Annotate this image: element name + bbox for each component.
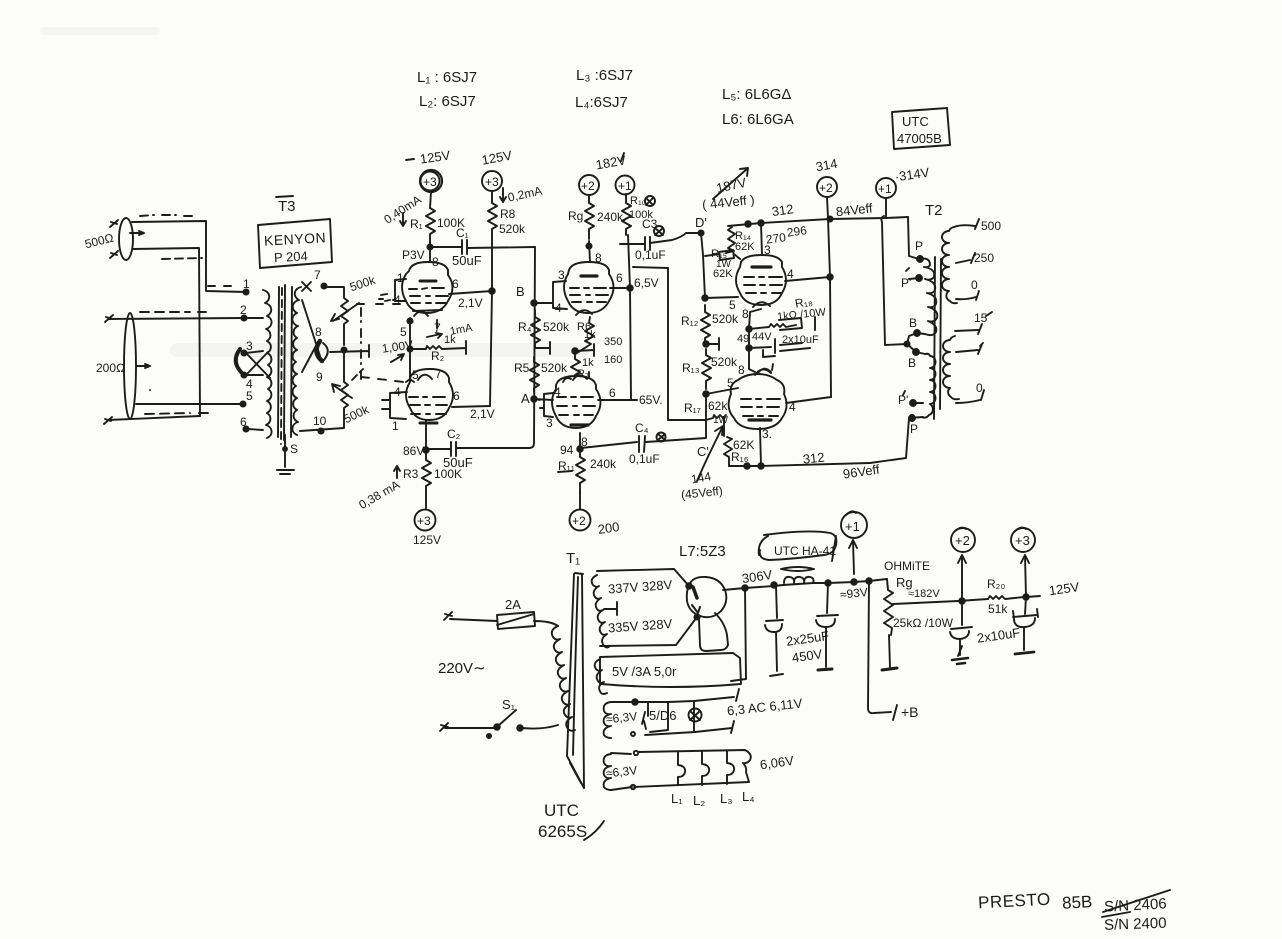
wire from R9 to L3 plate	[589, 241, 590, 262]
wiper wires dashed	[357, 303, 400, 305]
svg-text:7: 7	[314, 268, 321, 282]
svg-text:520k: 520k	[543, 320, 570, 334]
svg-text:+3: +3	[417, 514, 431, 528]
svg-text:P 204: P 204	[274, 248, 308, 265]
svg-text:1k: 1k	[584, 329, 596, 341]
svg-text:1: 1	[392, 419, 399, 433]
terminal +2 bottom	[579, 493, 581, 509]
wire rectifier filament down	[731, 588, 746, 681]
svg-text:+1: +1	[618, 179, 632, 193]
svg-text:3.: 3.	[762, 427, 772, 441]
terminal +1 top right	[876, 178, 896, 198]
svg-text:5/D6: 5/D6	[649, 708, 676, 723]
svg-text:L₄:6SJ7: L₄:6SJ7	[575, 94, 628, 111]
T2 tap 250	[956, 253, 975, 263]
L1 pin6 wire	[449, 291, 492, 294]
choke UTC HA-41	[759, 531, 837, 560]
svg-text:T2: T2	[925, 202, 943, 219]
svg-text:49: 49	[737, 333, 749, 345]
svg-text:5V /3A 5,0r: 5V /3A 5,0r	[612, 664, 677, 679]
svg-text:6: 6	[616, 271, 623, 285]
L3 cathode chain R6	[575, 317, 594, 354]
L3 grid stubs	[547, 281, 567, 309]
svg-text:3: 3	[558, 268, 565, 282]
resistor R11 240k	[576, 452, 585, 493]
resistor R13 520k	[702, 349, 711, 389]
L5 cathode down	[749, 309, 761, 369]
svg-text:R₁₇: R₁₇	[684, 401, 701, 415]
bar stub	[535, 342, 550, 354]
resistor R7 1k	[571, 353, 580, 377]
svg-text:1k: 1k	[444, 334, 456, 346]
6.3V winding 1	[604, 702, 611, 738]
svg-text:B: B	[516, 284, 525, 299]
svg-text:1W: 1W	[713, 415, 729, 426]
resistor R8 520k	[488, 191, 497, 241]
svg-text:R₁₃: R₁₃	[682, 361, 700, 375]
svg-text:R₁₀: R₁₀	[630, 195, 646, 207]
svg-text:L₂: L₂	[693, 793, 705, 808]
svg-text:9: 9	[316, 370, 323, 384]
T3 primary coil	[263, 290, 272, 438]
svg-text:UTC: UTC	[902, 114, 929, 129]
svg-text:86V: 86V	[403, 444, 424, 458]
svg-text:94: 94	[560, 443, 574, 457]
L6 plate stub down	[760, 428, 761, 466]
svg-text:500: 500	[981, 219, 1001, 233]
svg-text:S/N 2400: S/N 2400	[1104, 915, 1167, 934]
HV secondary winding	[597, 569, 697, 646]
T3 terminal 1	[243, 289, 248, 294]
svg-text:62K: 62K	[735, 241, 755, 253]
wire R10 down to L3 area	[628, 235, 631, 400]
svg-text:2A: 2A	[505, 597, 521, 612]
svg-text:15: 15	[974, 311, 988, 325]
svg-text:L6: 6L6GA: L6: 6L6GA	[722, 111, 794, 128]
svg-text:5: 5	[246, 389, 253, 403]
terminal +3 PSU	[1011, 528, 1035, 552]
svg-text:3: 3	[546, 416, 553, 430]
svg-text:6: 6	[453, 389, 460, 403]
inner box L5/D6	[644, 702, 668, 732]
T2 tap mid lower	[956, 343, 983, 354]
svg-text:+2: +2	[581, 179, 595, 193]
svg-text:0,1uF: 0,1uF	[629, 452, 660, 466]
svg-text:4: 4	[787, 267, 794, 281]
rectifier output wire 306V	[723, 585, 783, 590]
svg-text:25kΩ /10W: 25kΩ /10W	[893, 616, 954, 630]
wire pot wiper to bar	[330, 345, 369, 357]
terminal +3 bottom	[415, 510, 436, 531]
svg-text:B: B	[908, 356, 916, 370]
resistor R5 520k	[530, 357, 539, 392]
tube L1	[402, 262, 453, 313]
box UTC 47005B	[892, 108, 950, 149]
svg-text:R₁₆: R₁₆	[731, 450, 749, 464]
svg-text:1: 1	[243, 277, 250, 291]
filter cap 2	[827, 583, 828, 613]
T3 terminal 3	[241, 350, 246, 355]
svg-text:50uF: 50uF	[452, 253, 482, 268]
resistor R10 100k	[622, 194, 631, 235]
svg-text:2,1V: 2,1V	[470, 407, 495, 421]
L4 plate to 94 node	[579, 433, 581, 449]
svg-text:R5: R5	[514, 361, 530, 375]
svg-text:T3: T3	[278, 198, 296, 215]
L1 cathode wire	[407, 318, 412, 323]
heater loop L3	[727, 751, 734, 784]
svg-text:5: 5	[412, 368, 419, 382]
svg-text:L₃: L₃	[720, 791, 733, 806]
terminal +2 PSU	[951, 528, 975, 552]
T3 terminal S ground	[284, 435, 286, 467]
svg-text:6: 6	[240, 415, 247, 429]
wire +2 down right vertical	[828, 218, 831, 397]
svg-text:6: 6	[609, 386, 616, 400]
wire input top pair	[132, 221, 246, 292]
paper smudge top-left	[170, 343, 590, 357]
cap at +3	[1025, 597, 1026, 614]
T2 terminal P bottom	[909, 415, 915, 421]
L4 pin6 wire	[598, 399, 637, 401]
svg-text:250: 250	[974, 251, 994, 265]
L6 cathode arc top	[749, 364, 773, 375]
svg-text:1: 1	[397, 271, 404, 285]
svg-text:≈182V: ≈182V	[908, 588, 940, 600]
svg-text:3: 3	[246, 339, 253, 353]
svg-text:R₂: R₂	[431, 349, 445, 363]
wire to terminal 2 dashed shield	[149, 389, 151, 391]
T3 jumper 3-4 crescent	[236, 349, 241, 372]
junction bar mid	[703, 341, 709, 347]
B+ rail	[728, 217, 908, 226]
terminal +1	[616, 176, 635, 195]
T3 terminal 2	[241, 315, 246, 320]
svg-text:R₂₀: R₂₀	[987, 577, 1005, 591]
svg-text:S: S	[290, 442, 298, 456]
svg-text:S/N 2406: S/N 2406	[1104, 895, 1167, 915]
T3 terminal 7	[321, 283, 326, 288]
svg-text:44V: 44V	[752, 331, 772, 343]
svg-text:47005B: 47005B	[897, 131, 942, 146]
svg-text:≈93V: ≈93V	[839, 585, 868, 602]
svg-text:R₄: R₄	[518, 320, 532, 334]
svg-text:L₂: 6SJ7: L₂: 6SJ7	[419, 93, 476, 110]
T3 terminal 6	[243, 426, 248, 431]
T3 terminal 10	[318, 428, 323, 433]
svg-text:PRESTO: PRESTO	[978, 890, 1051, 913]
tube L5	[736, 255, 786, 305]
svg-text:160: 160	[604, 354, 622, 366]
svg-text:520k: 520k	[499, 222, 526, 236]
svg-text:+3: +3	[485, 175, 499, 189]
L4 grid stubs	[539, 393, 553, 417]
L3 pin6 wire	[610, 287, 630, 289]
svg-text:296: 296	[786, 223, 808, 240]
svg-text:312: 312	[802, 450, 825, 467]
tube L6	[729, 374, 787, 429]
svg-text:0: 0	[976, 381, 983, 395]
pot 500k bottom	[300, 350, 348, 431]
svg-text:65V.: 65V.	[639, 393, 663, 407]
input connector 500ohm	[119, 218, 133, 260]
svg-text:L₃ :6SJ7: L₃ :6SJ7	[576, 67, 633, 84]
resistor R12 520k	[701, 305, 710, 342]
svg-text:KENYON: KENYON	[264, 229, 327, 248]
svg-text:200Ω: 200Ω	[96, 361, 125, 375]
T3 core	[278, 287, 279, 437]
svg-text:85B: 85B	[1062, 892, 1093, 913]
svg-text:P3V: P3V	[402, 248, 425, 262]
svg-text:L7:5Z3: L7:5Z3	[679, 543, 726, 560]
svg-text:+3: +3	[423, 175, 437, 189]
svg-text:240k: 240k	[590, 457, 617, 471]
T2 secondary upper coil	[942, 227, 957, 303]
wire rail to R20	[958, 599, 988, 601]
node B vertical	[529, 247, 535, 448]
svg-text:L₄: L₄	[742, 789, 755, 804]
svg-text:Rg: Rg	[568, 209, 583, 223]
svg-text:D': D'	[695, 215, 707, 230]
svg-text:8: 8	[738, 363, 745, 377]
svg-text:L₅: 6L6GΔ: L₅: 6L6GΔ	[722, 86, 791, 103]
svg-text:220V∼: 220V∼	[438, 660, 486, 677]
svg-text:8: 8	[742, 307, 749, 321]
svg-text:L₁: L₁	[671, 791, 683, 806]
L2 grid stubs	[406, 352, 414, 382]
svg-text:2: 2	[240, 303, 247, 317]
terminal +2	[579, 175, 599, 195]
5V filament winding	[600, 653, 741, 687]
svg-text:T₁: T₁	[566, 550, 580, 567]
svg-text:R₁₂: R₁₂	[681, 314, 699, 328]
svg-text:62K: 62K	[713, 268, 733, 280]
svg-text:+2: +2	[819, 181, 833, 195]
L2 pin6 wire	[452, 406, 490, 407]
6.3V winding 2 heaters	[604, 754, 611, 790]
svg-text:B: B	[909, 316, 917, 330]
T3 terminal 5	[240, 401, 245, 406]
svg-text:100K: 100K	[434, 467, 462, 481]
L5 plate stub	[761, 223, 762, 255]
T1 core	[567, 574, 574, 756]
box KENYON P204	[258, 219, 332, 268]
svg-text:C₄: C₄	[635, 421, 649, 435]
pilot lamp D6	[693, 701, 695, 732]
svg-text:51k: 51k	[988, 602, 1008, 616]
wire R8 down	[490, 241, 492, 406]
R16 62k	[724, 437, 732, 466]
T1 primary coil	[552, 626, 575, 731]
input connector mid	[105, 315, 113, 322]
svg-text:125V: 125V	[413, 533, 441, 547]
resistor R14 62k	[726, 227, 735, 253]
svg-text:C₂: C₂	[447, 427, 461, 441]
svg-text:8: 8	[315, 325, 322, 339]
heater loop L1	[678, 752, 685, 785]
svg-text:+1: +1	[878, 182, 892, 196]
wire rail corner to P	[908, 217, 919, 259]
choke coil	[784, 577, 814, 583]
T3 terminal 4	[241, 372, 246, 377]
svg-text:5: 5	[400, 325, 407, 339]
svg-text:A: A	[521, 391, 530, 406]
node L6 grid	[703, 391, 709, 397]
T2 primary lower coil	[922, 354, 936, 418]
T2 center junction	[904, 341, 909, 346]
input connector 200ohm	[124, 313, 136, 419]
svg-text:7: 7	[435, 367, 442, 381]
svg-text:6,5V: 6,5V	[634, 276, 659, 290]
L6 pin4 wire	[786, 397, 831, 403]
T2 primary upper coil	[917, 259, 937, 336]
filter cap 1	[776, 586, 777, 618]
svg-text:OHMiTE: OHMiTE	[884, 559, 930, 573]
svg-text:520k: 520k	[712, 312, 739, 326]
tube L4	[552, 376, 601, 428]
svg-text:62k: 62k	[708, 399, 728, 413]
bottom rail 312	[729, 463, 870, 466]
tube L3	[564, 262, 614, 313]
tube L2	[406, 369, 453, 420]
resistor R3 100K	[422, 453, 431, 508]
svg-text:10: 10	[313, 414, 327, 428]
L1 grid stubs	[379, 279, 406, 301]
T2 tap +500	[954, 219, 979, 229]
svg-text:5: 5	[729, 298, 736, 312]
svg-text:0: 0	[971, 278, 978, 292]
svg-text:UTC: UTC	[544, 801, 579, 820]
svg-text:520k: 520k	[541, 361, 568, 375]
resistor R9 240k	[585, 195, 594, 239]
+B wire	[868, 581, 891, 713]
svg-text:R8: R8	[500, 207, 516, 221]
L4 cathode arc top	[563, 372, 589, 382]
L5 pin4 wire	[785, 277, 830, 281]
T2 core	[934, 257, 935, 419]
wire L3 area to right edge	[633, 267, 706, 420]
junction bar	[572, 348, 578, 354]
svg-text:P: P	[915, 239, 923, 253]
svg-text:C₁: C₁	[456, 226, 469, 240]
svg-text:2,1V: 2,1V	[458, 296, 483, 310]
heater loop L2	[702, 751, 709, 785]
svg-text:R3: R3	[403, 467, 419, 481]
svg-text:8: 8	[595, 251, 602, 265]
svg-text:+B: +B	[901, 704, 919, 720]
T2 secondary lower coil	[943, 336, 959, 399]
terminal +1 PSU	[841, 512, 867, 538]
svg-text:UTC HA-41: UTC HA-41	[774, 544, 836, 558]
pot 500k top	[326, 287, 348, 345]
svg-text:520k: 520k	[711, 355, 738, 369]
svg-text:200: 200	[597, 519, 621, 537]
svg-text:350: 350	[604, 336, 622, 348]
svg-text:3: 3	[764, 243, 771, 257]
svg-text:6265S: 6265S	[538, 822, 587, 841]
svg-text:+3: +3	[1015, 533, 1030, 548]
T3 secondary coil	[292, 287, 301, 435]
L5 grid wire	[702, 295, 708, 301]
svg-text:4: 4	[554, 385, 561, 399]
svg-text:+1: +1	[845, 519, 860, 534]
wire +1 down to center tap	[881, 216, 907, 345]
svg-text:L₁ : 6SJ7: L₁ : 6SJ7	[417, 69, 477, 86]
svg-text:S₁: S₁	[502, 697, 516, 712]
svg-text:6: 6	[452, 277, 459, 291]
resistor R4 520k	[531, 310, 540, 347]
svg-text:312: 312	[771, 201, 795, 219]
svg-text:+2: +2	[955, 533, 970, 548]
svg-text:0,1uF: 0,1uF	[635, 248, 666, 262]
input terminal top	[444, 612, 452, 620]
cap at +2	[961, 601, 963, 625]
resistor R1 100K	[426, 192, 435, 242]
svg-text:+2: +2	[572, 514, 586, 528]
L2 plate wire to 86V node	[425, 420, 427, 450]
svg-text:R₁: R₁	[410, 217, 423, 231]
svg-text:P: P	[910, 422, 918, 436]
